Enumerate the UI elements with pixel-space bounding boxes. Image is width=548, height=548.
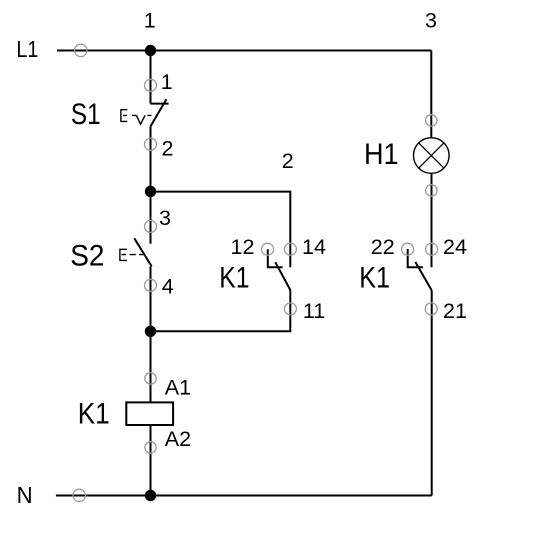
svg-text:H1: H1 (364, 138, 399, 171)
svg-text:3: 3 (425, 8, 437, 32)
svg-text:1: 1 (161, 70, 173, 94)
svg-text:21: 21 (443, 299, 467, 323)
svg-text:K1: K1 (78, 397, 110, 430)
svg-text:K1: K1 (219, 262, 249, 295)
svg-text:N: N (17, 482, 33, 508)
svg-text:22: 22 (371, 235, 395, 259)
svg-text:1: 1 (144, 8, 156, 32)
svg-text:4: 4 (162, 275, 174, 299)
svg-text:S1: S1 (71, 98, 101, 131)
svg-text:24: 24 (443, 235, 467, 259)
svg-text:2: 2 (162, 136, 174, 160)
svg-text:K1: K1 (359, 262, 390, 295)
svg-text:14: 14 (302, 235, 326, 259)
svg-text:11: 11 (303, 299, 325, 323)
svg-text:3: 3 (159, 206, 171, 230)
svg-text:S2: S2 (70, 239, 104, 272)
svg-text:2: 2 (282, 149, 294, 173)
svg-text:A2: A2 (165, 427, 191, 451)
svg-text:L1: L1 (16, 36, 38, 62)
svg-text:12: 12 (231, 235, 255, 259)
svg-text:A1: A1 (165, 375, 191, 399)
